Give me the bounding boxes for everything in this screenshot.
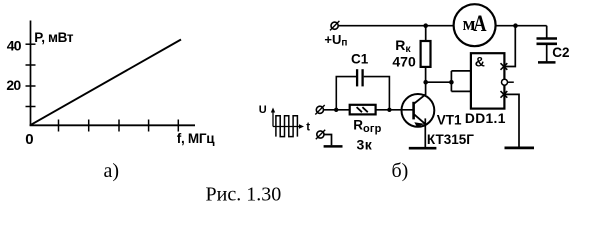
wire: Rk to collector node xyxy=(425,67,427,95)
terminal input top xyxy=(316,106,323,113)
node: input tie junction xyxy=(449,80,454,85)
wire: collector node to gate input tie xyxy=(426,81,452,83)
pin: middle circle output xyxy=(502,79,508,85)
wire: bottom terminal to ground xyxy=(324,135,332,146)
y-axis tick 10 xyxy=(26,106,36,108)
y-axis xyxy=(30,21,32,127)
terminal input bottom xyxy=(317,131,324,138)
svg-text:б): б) xyxy=(392,160,409,182)
wire: C2 lead bottom xyxy=(546,44,548,62)
svg-text:C1: C1 xyxy=(351,52,369,67)
y-axis tick 20 xyxy=(26,85,36,87)
pin: output x top xyxy=(501,63,508,70)
x-axis tick 4 xyxy=(148,120,150,132)
svg-text:U: U xyxy=(259,104,267,116)
svg-text:470: 470 xyxy=(392,53,416,69)
svg-text:40: 40 xyxy=(7,37,22,53)
node: base junction xyxy=(387,108,391,112)
svg-text:а): а) xyxy=(104,160,120,182)
x-axis tick 3 xyxy=(118,120,120,132)
capacitor C2 lead top xyxy=(546,26,548,39)
wire: gate input pin 1 xyxy=(451,70,470,72)
wire: emitter to ground xyxy=(424,118,426,147)
P(f) line xyxy=(30,40,181,126)
milliammeter PA xyxy=(454,4,496,46)
svg-text:t: t xyxy=(306,121,310,133)
x-axis tick 2 xyxy=(88,120,90,132)
svg-text:КТ315Г: КТ315Г xyxy=(427,132,474,147)
wire: top output to rail xyxy=(505,26,516,67)
node: rail to Rk junction xyxy=(423,23,428,28)
svg-text:VT1: VT1 xyxy=(437,112,462,127)
wire: gate input tie vertical xyxy=(450,71,452,92)
node: C1 left junction xyxy=(334,108,338,112)
wire: C1 left branch xyxy=(336,77,356,110)
wire: bottom output to ground xyxy=(505,94,519,146)
resistor Rk xyxy=(421,41,431,67)
svg-text:0: 0 xyxy=(25,131,33,148)
terminal +Up xyxy=(331,22,338,29)
resistor Rogr xyxy=(350,105,376,115)
x-axis tick 1 xyxy=(58,120,60,132)
y-axis tick 40 xyxy=(26,43,36,45)
wire: Rogr to base xyxy=(376,109,413,111)
emitter lead with arrow xyxy=(414,114,425,123)
ground (emitter) xyxy=(409,147,437,150)
ground (C2) xyxy=(538,61,556,64)
svg-text:C2: C2 xyxy=(552,45,569,60)
svg-text:А: А xyxy=(473,10,486,37)
collector lead xyxy=(414,95,425,104)
svg-text:f, МГц: f, МГц xyxy=(177,131,215,146)
capacitor C1 xyxy=(356,69,358,86)
wire: input to Rogr xyxy=(323,109,349,111)
t axis arrow xyxy=(273,126,302,128)
wire: C1 right branch xyxy=(364,77,390,110)
capacitor C2 xyxy=(537,37,558,40)
y-axis tick 30 xyxy=(26,64,36,66)
svg-text:P, мВт: P, мВт xyxy=(34,30,74,45)
ground (gate output) xyxy=(505,147,535,150)
U axis arrow xyxy=(272,110,274,127)
svg-text:3к: 3к xyxy=(357,137,373,153)
svg-text:&: & xyxy=(475,54,485,70)
svg-text:DD1.1: DD1.1 xyxy=(465,111,506,126)
logic gate DD1.1 xyxy=(471,53,505,108)
svg-text:Рис. 1.30: Рис. 1.30 xyxy=(206,184,282,206)
ground (input) xyxy=(324,145,343,148)
x-axis tick 5 xyxy=(177,120,179,132)
node: collector junction xyxy=(423,80,428,85)
wire: rail to Rk xyxy=(425,26,427,42)
wire: +Up rail xyxy=(336,25,547,27)
wire: gate input pin 2 xyxy=(451,90,470,92)
x-axis xyxy=(30,124,195,126)
node: rail junction xyxy=(513,23,518,28)
pin: output x bottom xyxy=(501,91,508,98)
svg-text:20: 20 xyxy=(6,77,21,93)
input square wave xyxy=(276,116,298,137)
transistor VT1 xyxy=(402,94,435,127)
